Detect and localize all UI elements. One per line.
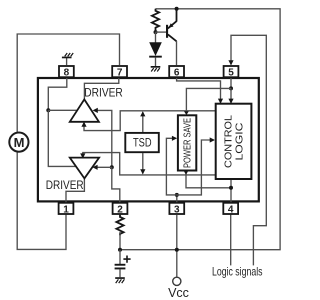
arrow TSD to upper control line	[140, 111, 145, 116]
wire pin7 to upper driver output	[84, 78, 118, 99]
node dot pin5 net	[229, 86, 233, 90]
node dot pin8 net	[46, 108, 50, 112]
wire control line to upper driver bottom input	[84, 111, 216, 131]
wire pin2 net to driver right inputs	[94, 110, 112, 167]
svg-text:DRIVER: DRIVER	[46, 178, 84, 192]
arrow into pin 5	[228, 60, 233, 65]
pin 4	[223, 203, 238, 216]
diode D1	[149, 32, 162, 66]
wire pin5 dot to control logic top	[230, 88, 232, 103]
svg-text:LOGIC: LOGIC	[234, 122, 246, 160]
wire pin3 net to power save left input	[166, 138, 176, 195]
svg-text:8: 8	[64, 67, 70, 78]
op-amp lower DRIVER triangle	[70, 158, 99, 179]
arrow into power save left	[172, 136, 177, 141]
wire Vcc top rail: top wire, right side down to bottom rail	[120, 9, 280, 250]
arrow into power save top	[184, 111, 189, 115]
pin 1	[59, 203, 74, 216]
svg-text:TSD: TSD	[133, 136, 152, 150]
wire to lower driver left input	[48, 110, 76, 166]
pin 6	[169, 66, 184, 78]
wire logic input to pin5: over right side	[231, 35, 266, 265]
wire pin3 to dot	[176, 195, 178, 202]
wire control logic bottom to pin4	[230, 180, 232, 202]
arrow into upper driver right slope	[93, 108, 98, 113]
ground (above pin 8)	[62, 53, 73, 65]
wire dot down to pin2	[112, 167, 120, 202]
node dot pin3 net	[175, 193, 179, 197]
POWER SAVE block	[178, 115, 196, 170]
wire motor loop top: pin7 to motor	[17, 34, 119, 132]
svg-text:POWER SAVE: POWER SAVE	[182, 118, 194, 168]
wire dot to lower driver right slope	[94, 166, 112, 168]
wire motor loop bottom: motor to pin1	[17, 152, 66, 250]
svg-text:7: 7	[117, 67, 123, 78]
arrow into lower driver top base	[80, 153, 85, 158]
node dot pin4 net	[229, 186, 233, 190]
ground (below diode)	[151, 66, 161, 72]
svg-text:6: 6	[174, 67, 180, 78]
motor M	[9, 133, 28, 152]
svg-text:5: 5	[228, 67, 234, 78]
node dot rail left	[118, 248, 122, 252]
pin 2	[113, 203, 128, 216]
wire TSD up arrow	[142, 112, 144, 132]
capacitor C1 (polarized)	[115, 250, 131, 278]
wire to upper driver left input	[48, 109, 78, 111]
IC body	[38, 78, 259, 201]
wire resistor to rail dot	[119, 232, 121, 250]
pin 7	[112, 66, 127, 78]
wire control bus to lower driver top input	[83, 153, 216, 175]
arrow into upper driver base	[81, 122, 86, 127]
arrow into control logic left	[210, 137, 215, 142]
node dot pin2 net	[110, 165, 114, 169]
op-amp upper DRIVER triangle	[70, 99, 99, 121]
wire pin5 internal	[230, 78, 232, 88]
svg-text:Vcc: Vcc	[168, 286, 189, 300]
arrow TSD to lower control bus	[140, 169, 145, 174]
svg-text:4: 4	[228, 205, 234, 216]
svg-text:1: 1	[63, 205, 69, 216]
wire logic input to pin4	[230, 215, 232, 266]
node base junction dot	[154, 30, 158, 34]
wire lower driver output to pin1	[66, 178, 84, 202]
svg-text:DRIVER: DRIVER	[84, 85, 123, 99]
resistor R2 (pin 2)	[116, 215, 123, 236]
svg-text:CONTROL: CONTROL	[222, 115, 234, 168]
arrow pin5 into control logic top	[228, 99, 233, 104]
pin 8	[59, 66, 74, 78]
TSD block	[125, 133, 159, 152]
wire power save bottom to pin4 node	[186, 172, 231, 188]
node emitter junction dot on top wire	[175, 7, 179, 11]
arrow into lower driver right slope	[92, 165, 97, 170]
pin 3	[169, 203, 184, 216]
node dot Vcc rail	[175, 248, 179, 252]
wire TSD down arrow	[142, 153, 144, 174]
pin 5	[224, 66, 239, 78]
CONTROL LOGIC block	[216, 104, 252, 179]
arrow pin6 into control logic top	[218, 99, 223, 104]
wire pin8 to driver left inputs	[48, 78, 67, 110]
wire pin3 net to control logic left input	[177, 140, 214, 195]
ground (below capacitor)	[115, 277, 125, 283]
svg-text:2: 2	[117, 205, 123, 216]
resistor R1 (top, to transistor base)	[152, 9, 159, 32]
wire pin6 to control logic	[177, 78, 221, 103]
wire pin3 to Vcc terminal	[176, 215, 178, 277]
svg-text:M: M	[14, 135, 25, 150]
transistor Q1 (PNP)	[156, 9, 177, 65]
svg-text:Logic signals: Logic signals	[212, 264, 263, 278]
svg-text:3: 3	[174, 205, 180, 216]
arrow power save output down	[184, 171, 189, 175]
wire pin5 dot to power save top	[186, 88, 231, 114]
terminal Vcc	[173, 277, 181, 285]
